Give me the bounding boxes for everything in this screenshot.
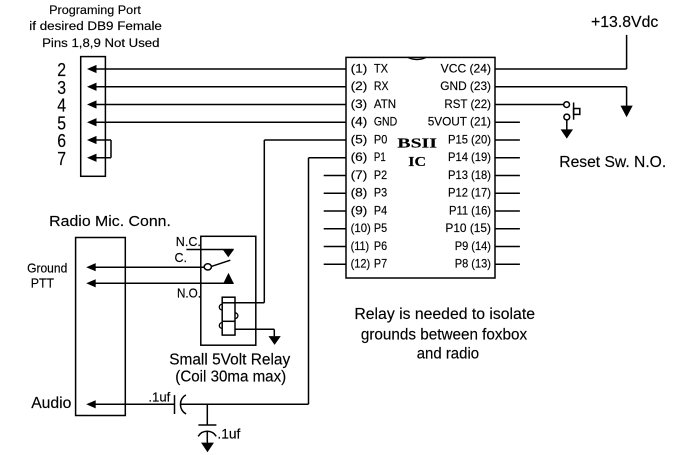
svg-text:P11 (16): P11 (16) <box>449 203 491 217</box>
svg-text:(2): (2) <box>351 79 368 93</box>
svg-text:7: 7 <box>57 148 66 169</box>
svg-text:(8): (8) <box>351 186 368 200</box>
svg-text:5VOUT (21): 5VOUT (21) <box>428 115 491 129</box>
svg-text:and radio: and radio <box>417 346 479 363</box>
svg-text:RST (22): RST (22) <box>444 97 491 111</box>
svg-text:P1: P1 <box>374 150 386 164</box>
svg-text:Ground: Ground <box>27 260 67 275</box>
svg-text:P12 (17): P12 (17) <box>448 186 491 200</box>
svg-text:.1uf: .1uf <box>148 389 170 404</box>
svg-text:P6: P6 <box>374 239 388 253</box>
svg-text:GND: GND <box>374 115 397 129</box>
svg-text:GND (23): GND (23) <box>440 79 491 93</box>
svg-text:+13.8Vdc: +13.8Vdc <box>591 14 659 31</box>
svg-text:P5: P5 <box>374 221 388 235</box>
svg-text:Pins 1,8,9 Not Used: Pins 1,8,9 Not Used <box>42 36 159 50</box>
svg-text:TX: TX <box>374 61 388 75</box>
svg-text:(11): (11) <box>351 239 370 253</box>
svg-text:(9): (9) <box>351 203 368 217</box>
svg-text:Audio: Audio <box>31 395 71 412</box>
svg-text:P7: P7 <box>374 257 387 271</box>
svg-text:N.O.: N.O. <box>177 287 201 301</box>
svg-text:P2: P2 <box>374 168 387 182</box>
svg-text:(12): (12) <box>351 257 371 271</box>
svg-text:P14 (19): P14 (19) <box>448 150 491 164</box>
svg-text:PTT: PTT <box>31 276 54 291</box>
svg-text:.1uf: .1uf <box>217 425 240 441</box>
svg-text:ATN: ATN <box>374 97 396 111</box>
svg-text:C.: C. <box>175 251 188 265</box>
svg-text:(5): (5) <box>351 132 368 146</box>
svg-text:Small 5Volt Relay: Small 5Volt Relay <box>169 351 290 368</box>
svg-text:if desired DB9 Female: if desired DB9 Female <box>29 19 162 33</box>
svg-text:P0: P0 <box>374 132 388 146</box>
svg-text:VCC (24): VCC (24) <box>441 61 491 75</box>
svg-text:Reset Sw. N.O.: Reset Sw. N.O. <box>559 154 666 171</box>
svg-text:P8 (13): P8 (13) <box>455 257 491 271</box>
svg-text:Programing Port: Programing Port <box>49 3 141 17</box>
svg-text:P4: P4 <box>374 203 388 217</box>
svg-text:(3): (3) <box>351 97 368 111</box>
svg-text:IC: IC <box>408 154 426 169</box>
svg-text:P13 (18): P13 (18) <box>448 168 491 182</box>
svg-text:RX: RX <box>374 79 389 93</box>
svg-text:(7): (7) <box>351 168 368 182</box>
svg-text:(1): (1) <box>351 61 368 75</box>
svg-text:BSII: BSII <box>397 136 437 151</box>
svg-text:P3: P3 <box>374 186 388 200</box>
svg-text:P10 (15): P10 (15) <box>445 221 491 235</box>
svg-text:(4): (4) <box>351 115 368 129</box>
svg-text:grounds between foxbox: grounds between foxbox <box>361 326 527 343</box>
svg-text:(10): (10) <box>351 221 371 235</box>
svg-text:(Coil 30ma max): (Coil 30ma max) <box>175 369 286 386</box>
svg-text:P9 (14): P9 (14) <box>455 239 491 253</box>
svg-text:N.C.: N.C. <box>176 235 201 249</box>
svg-text:Radio Mic. Conn.: Radio Mic. Conn. <box>49 213 171 230</box>
svg-text:Relay is needed to isolate: Relay is needed to isolate <box>354 306 535 323</box>
svg-text:(6): (6) <box>351 150 368 164</box>
svg-text:P15 (20): P15 (20) <box>448 132 491 146</box>
